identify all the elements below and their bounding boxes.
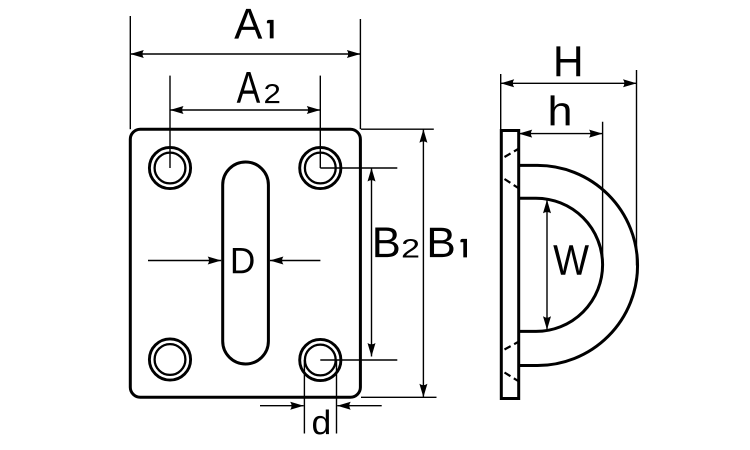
arrowhead A2 left: [170, 106, 184, 114]
slot (center obround): [223, 162, 269, 364]
arrowhead B2 bottom: [368, 343, 376, 357]
extension line B2 top (from top-right hole center): [320, 167, 397, 169]
label A1 letter A: [234, 9, 262, 39]
arrowhead W top: [543, 200, 551, 214]
dimension line B2: [371, 168, 373, 357]
D leader line right: [270, 260, 321, 262]
hole top-right outer: [300, 147, 341, 188]
arrowhead H left: [501, 79, 515, 87]
extension line d right: [336, 360, 338, 434]
d leader line left: [260, 405, 304, 407]
extension line B2 bottom (from bottom-right hole center): [320, 359, 397, 361]
D arrowhead left (points right at slot): [208, 257, 222, 265]
d arrowhead left (points right): [290, 402, 304, 410]
arrowhead A1 right: [347, 50, 361, 58]
arrowhead h left: [519, 130, 533, 138]
arrowhead A1 left: [130, 50, 144, 58]
label W: [553, 245, 589, 274]
label A2 letter A: [237, 72, 260, 103]
hole bottom-left outer: [149, 339, 190, 380]
extension line A2 right: [319, 76, 321, 168]
extension line d left: [303, 360, 305, 434]
label d: [313, 410, 329, 435]
dimension line h: [519, 133, 603, 135]
arrowhead B1 top: [419, 129, 427, 143]
hole top-right inner: [305, 153, 336, 184]
dimension line H: [501, 82, 637, 84]
D arrowhead right (points left at slot): [270, 257, 284, 265]
label B1 subscript 1: [460, 239, 467, 258]
arrowhead h right: [589, 130, 603, 138]
extension line B1 bottom (from plate bottom edge): [361, 396, 437, 398]
extension line H right: [636, 70, 638, 266]
label h: [551, 95, 570, 125]
extension line A1 right: [359, 19, 361, 129]
label H: [556, 46, 580, 76]
eye loop outer curve: [519, 165, 638, 365]
dimension line W: [546, 200, 548, 330]
d leader line right: [337, 405, 382, 407]
arrowhead B2 top: [368, 168, 376, 182]
label B1 letter B: [430, 228, 454, 257]
dimension line A1: [130, 53, 360, 55]
dimension line B1: [422, 129, 424, 397]
extension line H left: [500, 74, 502, 131]
extension line B1 top (from plate top edge): [361, 128, 434, 130]
arrowhead B1 bottom: [419, 384, 427, 398]
label A2 subscript 2: [265, 84, 279, 103]
d arrowhead right (points left): [337, 402, 351, 410]
label B2 subscript 2: [403, 239, 418, 258]
hole bottom-right inner: [305, 345, 336, 376]
weld hatch mark 3: [505, 342, 520, 350]
extension line A2 left: [169, 76, 171, 168]
hole bottom-left inner: [155, 344, 186, 375]
weld hatch mark 4: [505, 373, 520, 382]
label D: [233, 248, 254, 273]
label B2 letter B: [375, 227, 398, 257]
extension line h right: [602, 122, 604, 265]
eye loop inner curve: [519, 198, 603, 331]
hole top-left outer: [149, 147, 190, 188]
plate outline (front view): [130, 129, 360, 397]
weld hatch mark 2: [505, 179, 520, 189]
dimension line A2: [170, 109, 320, 111]
label A1 subscript 1: [267, 20, 274, 39]
arrowhead H right: [623, 79, 637, 87]
weld hatch mark 1: [505, 149, 520, 158]
arrowhead A2 right: [307, 106, 321, 114]
side plate (side view): [501, 131, 518, 399]
hole bottom-right outer: [300, 339, 341, 380]
hole top-left inner: [155, 153, 186, 184]
extension line A1 left: [129, 16, 131, 129]
D leader line left: [148, 260, 221, 262]
arrowhead W bottom: [543, 316, 551, 330]
